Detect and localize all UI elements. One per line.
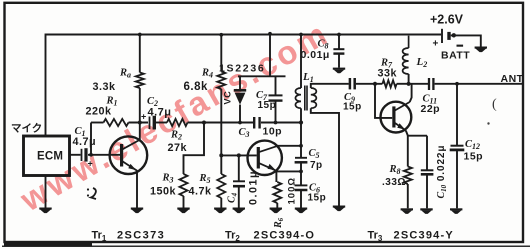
svg-text:7p: 7p: [310, 160, 323, 171]
wire Tr2 emitter down: [275, 171, 277, 182]
svg-text:+: +: [433, 39, 439, 50]
wire Tr1 collector up: [139, 123, 141, 141]
resistor R7 33k: [382, 80, 396, 87]
wire ANT line to C12: [456, 84, 458, 146]
wire emitter to R8: [407, 136, 409, 167]
wire bar to diode: [239, 76, 241, 90]
wire C4 to ground: [238, 187, 240, 208]
inductor L2: [408, 36, 410, 48]
resistor R2 27k: [167, 119, 188, 126]
wire bar to C7: [275, 76, 277, 95]
svg-text:10p: 10p: [263, 126, 283, 138]
svg-text:22p: 22p: [421, 103, 441, 115]
resistor R6 100ohm: [273, 182, 281, 203]
wire rail drop to varactor bar: [269, 34, 271, 77]
ground (C8): [333, 68, 345, 74]
svg-text:15p: 15p: [308, 193, 327, 204]
wire junction down-left to R3: [184, 123, 205, 175]
wire R2 to C3: [188, 122, 254, 124]
wire Tr3 collector up: [410, 84, 412, 102]
wire L1 primary bottom / feedback column: [300, 108, 302, 157]
ground (battery): [475, 47, 487, 53]
svg-text:+: +: [88, 159, 94, 169]
svg-text:33k: 33k: [378, 68, 398, 80]
capacitor C1 4.7u: [81, 149, 83, 161]
ground (R6): [270, 208, 282, 214]
ground (C10): [420, 208, 432, 214]
svg-text:+: +: [141, 112, 147, 122]
capacitor C9 15p: [349, 78, 352, 89]
wire emitter to C10: [408, 135, 427, 137]
wire Tr1 emitter to ground: [136, 171, 138, 208]
wire base node up to R1: [90, 123, 92, 155]
svg-text:6.8k: 6.8k: [184, 81, 208, 93]
wire Tr2 collector to tank: [278, 145, 301, 147]
ground (R3): [177, 208, 189, 214]
wire to C10: [426, 136, 428, 170]
resistor R8 .33ohm: [404, 167, 412, 185]
inductor L1 secondary: [311, 88, 317, 108]
L1 core: [305, 86, 307, 111]
svg-text:VC: VC: [223, 90, 233, 104]
ground (R8): [401, 208, 413, 214]
wire C6 to ground: [300, 190, 302, 207]
wire L1 secondary bottom to ground: [311, 108, 339, 205]
svg-text:.33Ω: .33Ω: [382, 177, 406, 188]
wire diode to main wire: [239, 105, 241, 123]
transistor Q3 (Tr3 2SC394-Y): [381, 102, 412, 133]
svg-text:+2.6V: +2.6V: [430, 13, 464, 27]
svg-text:(: (: [492, 97, 497, 112]
wire L2 to output line: [408, 74, 410, 84]
svg-text:0.01μ: 0.01μ: [248, 170, 260, 205]
capacitor C11 22p: [428, 78, 430, 90]
wire C10 to ground: [426, 175, 428, 209]
svg-text:ANT: ANT: [501, 73, 524, 85]
wire R3 to ground: [183, 196, 185, 208]
wire Ra to collector node: [139, 88, 141, 123]
svg-text:4.7μ: 4.7μ: [73, 136, 97, 148]
wire L2 node to C11: [410, 83, 428, 85]
wire VCC top rail: [46, 35, 442, 136]
wire drop to Tr3 base: [375, 84, 392, 118]
wire varactor-C7 top bar: [238, 75, 286, 77]
svg-text:15p: 15p: [464, 151, 484, 163]
wire R7 to L2 node: [397, 83, 409, 85]
wire segment to R1: [91, 122, 104, 124]
svg-text:BATT: BATT: [441, 50, 470, 62]
watermark www.elecfans.com: [13, 14, 335, 219]
microphone ECM: [24, 136, 70, 176]
wire rail to L1 primary: [300, 35, 302, 89]
wire R5 to ground: [220, 198, 222, 208]
wire C5 to C6: [300, 163, 302, 186]
wire base rail to C4: [238, 155, 240, 181]
transistor Q2 (Tr2 2SC394-O): [248, 141, 282, 175]
wire C11 to ANT: [435, 83, 523, 85]
wire emitter exit: [406, 131, 408, 136]
wire C7 to main wire: [275, 101, 277, 123]
capacitor C6 15p: [295, 184, 308, 186]
wire C8 to ground: [338, 54, 340, 68]
svg-text:1S2236: 1S2236: [219, 63, 265, 75]
svg-text:150k: 150k: [150, 186, 177, 198]
wire C3 to L1 node: [261, 122, 301, 124]
svg-text:ECM: ECM: [37, 151, 63, 163]
wire C9 to R7: [356, 83, 382, 85]
svg-text:4.7μ: 4.7μ: [148, 107, 172, 119]
wire battery minus to ground: [451, 35, 481, 46]
wire R4 down through main wire to R5: [220, 89, 222, 174]
wire L1 secondary top to C9: [311, 84, 349, 88]
capacitor C3 10p: [253, 117, 255, 129]
svg-text:15p: 15p: [258, 100, 277, 111]
svg-text:0.01μ: 0.01μ: [301, 49, 330, 61]
svg-text:マイク: マイク: [11, 123, 42, 135]
wire ECM output: [70, 154, 81, 156]
wire R8 to ground: [407, 184, 409, 208]
wire emitter to C5/C6 node: [276, 170, 301, 172]
wire R1 to C2: [129, 122, 149, 124]
ground (ECM): [39, 208, 51, 214]
wire C2 to R2: [156, 122, 167, 124]
scan mark squiggle: [91, 188, 96, 199]
svg-text:15p: 15p: [343, 102, 362, 113]
wire rail to R4: [220, 35, 222, 72]
svg-text:27k: 27k: [168, 142, 188, 154]
wire ECM to ground: [45, 176, 47, 208]
ground (C12): [450, 208, 462, 214]
wire rail to C8: [338, 35, 340, 49]
wire Tr2 base rail: [221, 154, 256, 156]
svg-text:220k: 220k: [86, 106, 113, 118]
wire rail to Ra: [139, 35, 141, 73]
wire C1 to Tr1 base: [88, 154, 121, 156]
svg-text:4.7k: 4.7k: [189, 186, 213, 198]
capacitor C2 4.7u: [149, 117, 151, 130]
transistor Q1 (Tr1 2SC373): [110, 136, 148, 174]
ground (C6): [295, 208, 307, 214]
ground (R5): [214, 208, 226, 214]
ground (L1 secondary): [333, 206, 345, 212]
wire C12 to ground: [456, 150, 458, 208]
capacitor C5 7p: [295, 157, 307, 159]
resistor R5 4.7k: [217, 174, 225, 198]
ground (Tr1 emitter): [131, 208, 143, 214]
ground (C4): [233, 208, 245, 214]
wire R6 to ground: [276, 203, 278, 208]
svg-text:3.3k: 3.3k: [93, 81, 117, 93]
resistor R1 220k: [104, 119, 129, 126]
